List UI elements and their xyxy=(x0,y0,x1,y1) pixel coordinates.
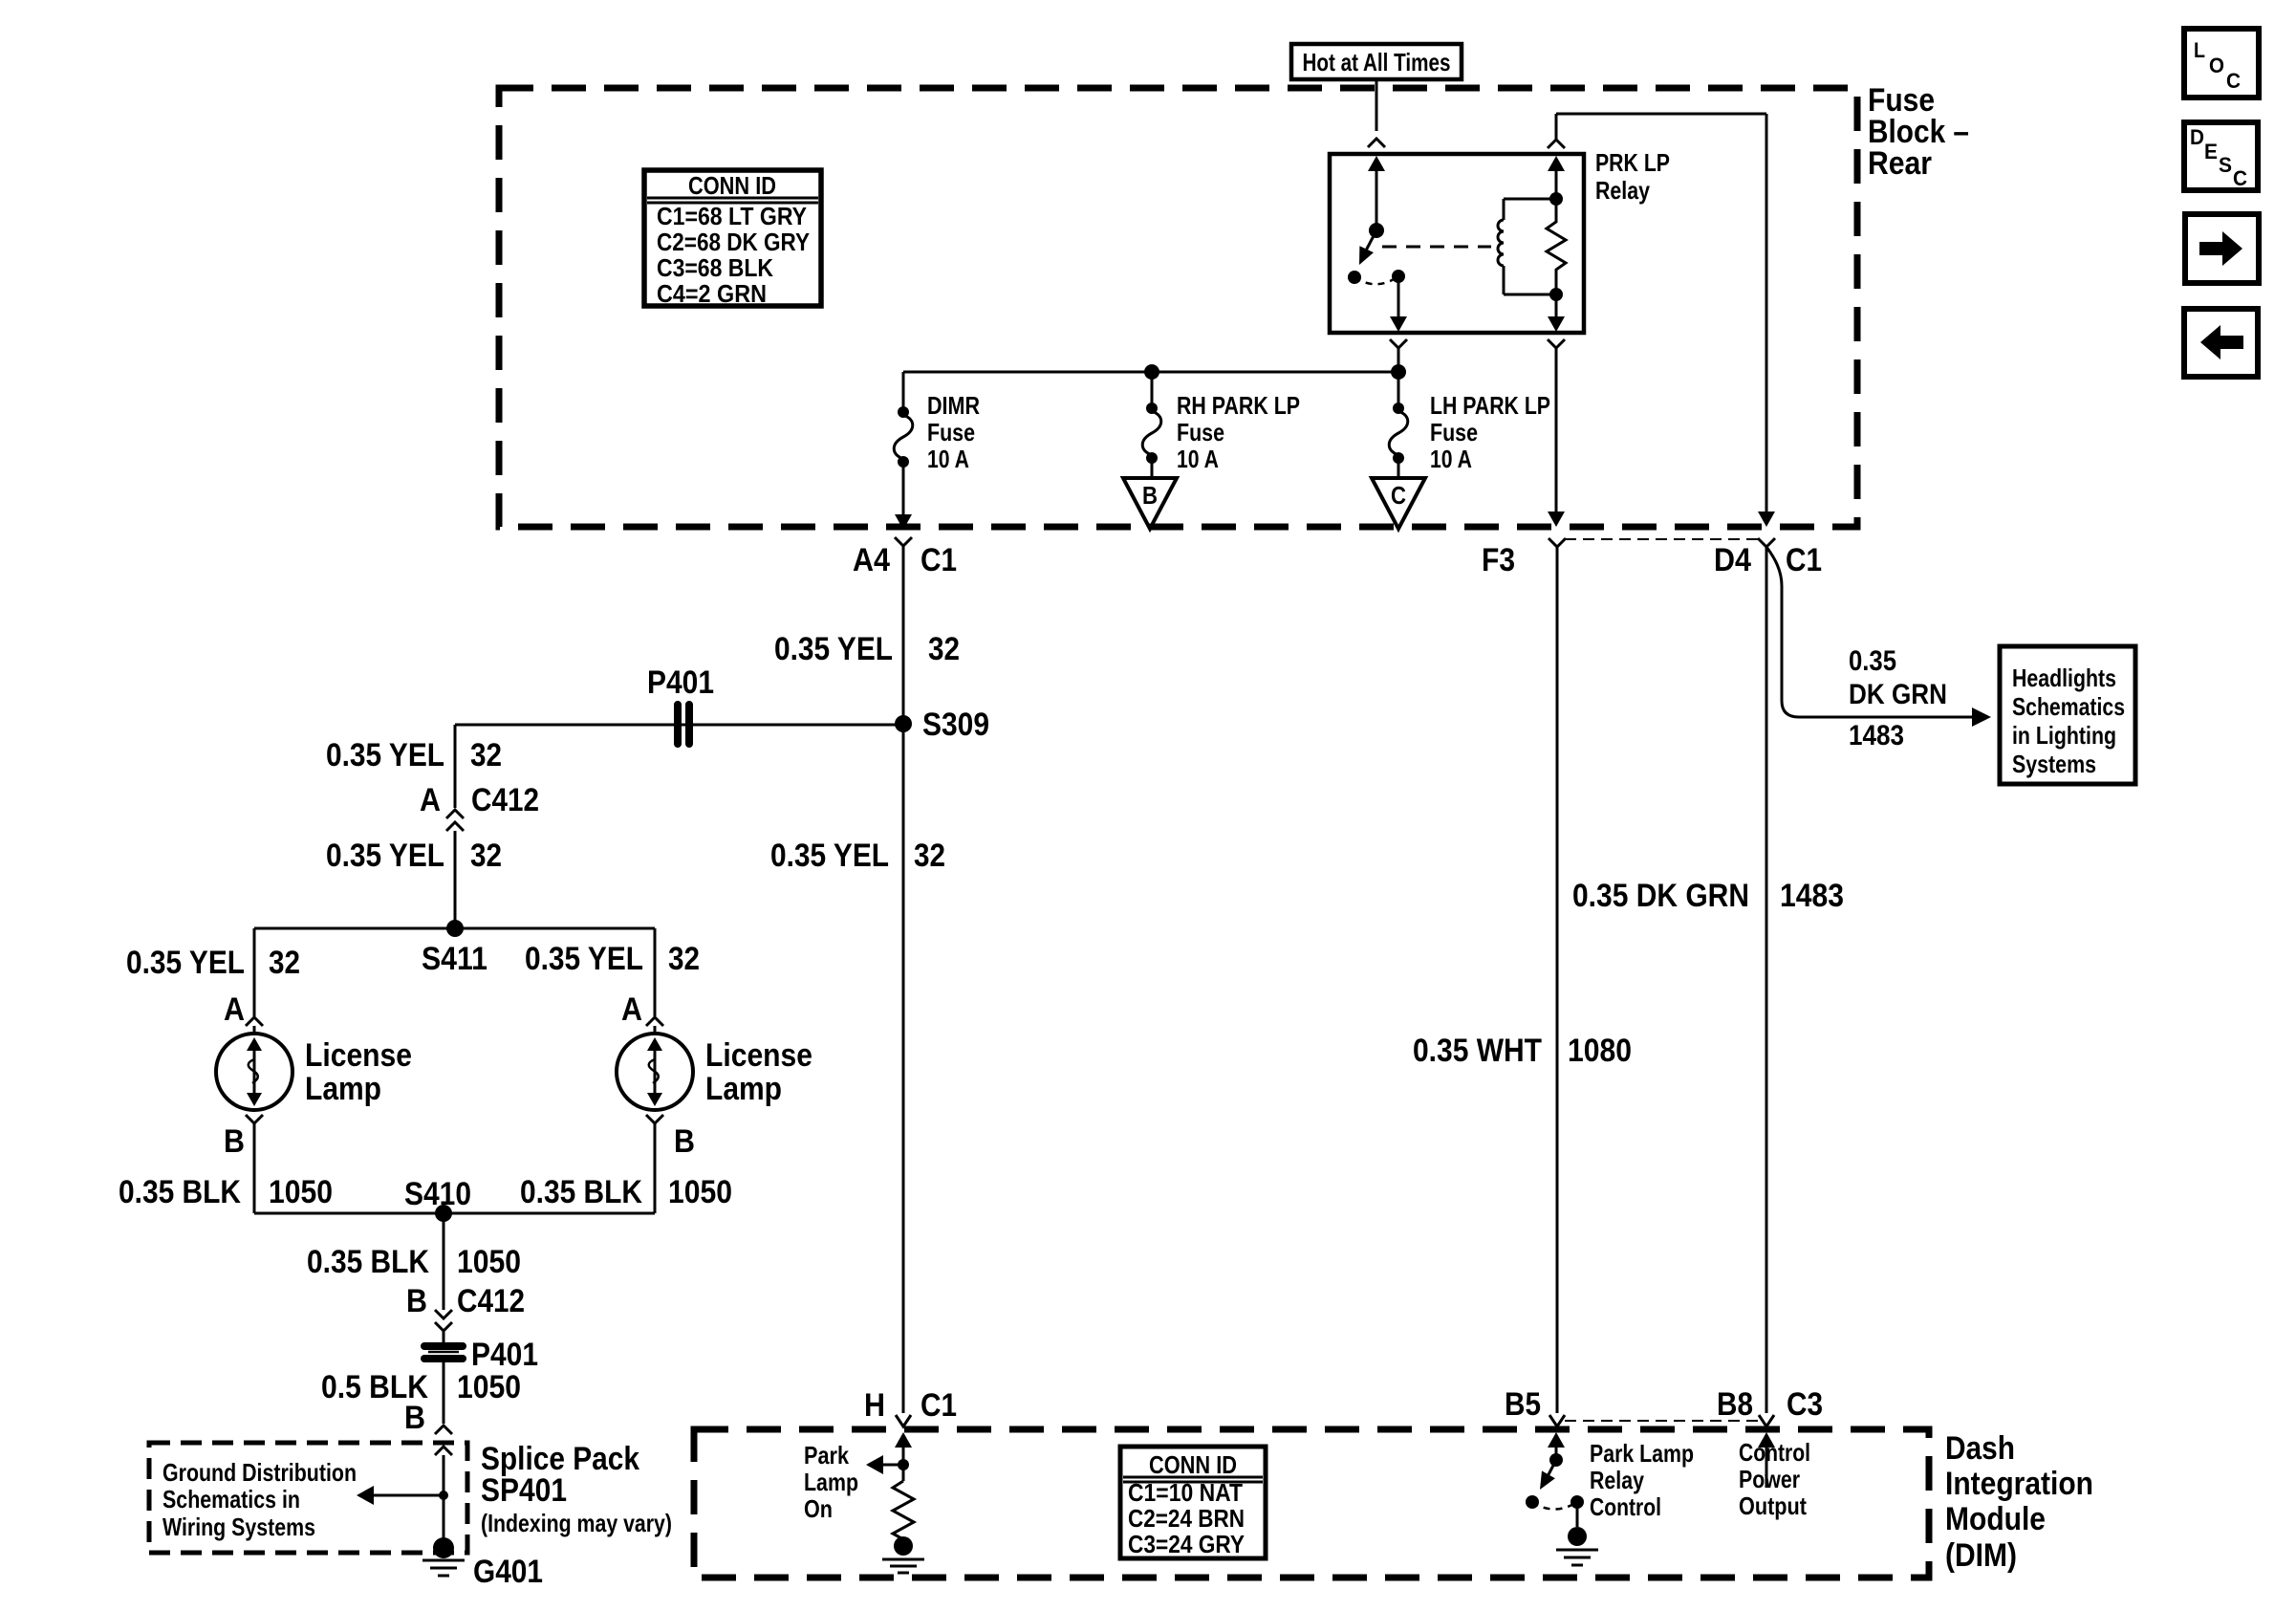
svg-text:Lamp: Lamp xyxy=(305,1071,381,1107)
svg-text:PRK LP: PRK LP xyxy=(1595,148,1670,177)
svg-text:32: 32 xyxy=(928,631,960,667)
svg-text:32: 32 xyxy=(668,941,700,977)
svg-text:1050: 1050 xyxy=(668,1174,732,1210)
svg-text:Schematics in: Schematics in xyxy=(162,1485,300,1513)
svg-text:B: B xyxy=(406,1283,427,1319)
svg-text:0.35 YEL: 0.35 YEL xyxy=(525,941,643,977)
svg-text:S411: S411 xyxy=(422,941,487,977)
svg-text:Output: Output xyxy=(1739,1491,1807,1520)
svg-text:B5: B5 xyxy=(1505,1386,1541,1423)
svg-text:Module: Module xyxy=(1945,1501,2046,1537)
svg-text:0.35 DK GRN: 0.35 DK GRN xyxy=(1572,878,1749,914)
svg-text:C: C xyxy=(2233,166,2247,190)
svg-text:10 A: 10 A xyxy=(1177,445,1219,473)
svg-text:B: B xyxy=(674,1123,695,1160)
svg-text:A4: A4 xyxy=(853,542,890,578)
svg-text:Systems: Systems xyxy=(2012,750,2096,778)
svg-text:1483: 1483 xyxy=(1780,878,1844,914)
svg-text:0.35 YEL: 0.35 YEL xyxy=(326,838,444,874)
svg-text:D4: D4 xyxy=(1714,542,1751,578)
svg-text:Fuse: Fuse xyxy=(1177,418,1224,446)
svg-text:RH PARK LP: RH PARK LP xyxy=(1177,391,1300,420)
svg-text:Power: Power xyxy=(1739,1465,1800,1493)
svg-text:1050: 1050 xyxy=(457,1369,521,1405)
svg-text:Park Lamp: Park Lamp xyxy=(1590,1439,1694,1468)
svg-text:C: C xyxy=(2226,69,2241,93)
svg-text:F3: F3 xyxy=(1482,542,1515,578)
svg-text:0.35 BLK: 0.35 BLK xyxy=(520,1174,642,1210)
svg-text:32: 32 xyxy=(914,838,945,874)
svg-text:S309: S309 xyxy=(922,707,989,743)
svg-text:C3: C3 xyxy=(1787,1386,1823,1423)
svg-text:Headlights: Headlights xyxy=(2012,664,2116,692)
svg-text:C2=24 BRN: C2=24 BRN xyxy=(1128,1504,1245,1533)
svg-text:C: C xyxy=(1391,481,1406,510)
svg-text:Dash: Dash xyxy=(1945,1430,2015,1467)
svg-text:CONN ID: CONN ID xyxy=(688,171,776,200)
svg-text:C1: C1 xyxy=(921,1387,957,1424)
svg-text:C1: C1 xyxy=(921,542,957,578)
svg-text:Lamp: Lamp xyxy=(804,1468,858,1496)
svg-text:S410: S410 xyxy=(404,1176,471,1212)
svg-text:Relay: Relay xyxy=(1595,176,1650,205)
svg-text:0.35 YEL: 0.35 YEL xyxy=(126,945,245,981)
svg-text:A: A xyxy=(621,991,642,1028)
svg-text:Fuse: Fuse xyxy=(927,418,975,446)
svg-text:Park: Park xyxy=(804,1441,849,1469)
svg-text:B8: B8 xyxy=(1717,1386,1753,1423)
svg-text:C412: C412 xyxy=(457,1283,525,1319)
svg-text:Schematics: Schematics xyxy=(2012,692,2125,721)
svg-text:Hot at All Times: Hot at All Times xyxy=(1303,48,1451,76)
svg-text:in Lighting: in Lighting xyxy=(2012,721,2116,750)
svg-text:Rear: Rear xyxy=(1868,145,1932,182)
svg-text:Lamp: Lamp xyxy=(705,1071,782,1107)
svg-text:(Indexing may vary): (Indexing may vary) xyxy=(481,1509,672,1537)
svg-text:1483: 1483 xyxy=(1849,720,1904,751)
svg-text:Wiring Systems: Wiring Systems xyxy=(162,1513,315,1541)
svg-text:D: D xyxy=(2190,125,2204,149)
svg-text:A: A xyxy=(224,991,245,1028)
svg-text:A: A xyxy=(420,782,441,818)
svg-text:Control: Control xyxy=(1590,1492,1661,1521)
svg-text:0.35: 0.35 xyxy=(1849,645,1896,677)
svg-text:1050: 1050 xyxy=(269,1174,333,1210)
svg-text:O: O xyxy=(2209,54,2224,77)
svg-text:C3=68 BLK: C3=68 BLK xyxy=(657,253,773,282)
svg-text:C2=68 DK GRY: C2=68 DK GRY xyxy=(657,228,810,256)
svg-text:C412: C412 xyxy=(471,782,539,818)
svg-text:0.35 YEL: 0.35 YEL xyxy=(326,737,444,773)
svg-text:E: E xyxy=(2204,140,2218,163)
svg-text:S: S xyxy=(2219,153,2232,177)
svg-text:0.35 YEL: 0.35 YEL xyxy=(774,631,893,667)
svg-text:0.35 BLK: 0.35 BLK xyxy=(119,1174,241,1210)
svg-text:B: B xyxy=(224,1123,245,1160)
svg-text:C1=10 NAT: C1=10 NAT xyxy=(1128,1478,1243,1507)
svg-text:P401: P401 xyxy=(647,664,714,701)
svg-text:10 A: 10 A xyxy=(927,445,969,473)
svg-text:1050: 1050 xyxy=(457,1244,521,1280)
svg-text:Ground Distribution: Ground Distribution xyxy=(162,1458,357,1487)
svg-text:Relay: Relay xyxy=(1590,1466,1644,1494)
svg-text:32: 32 xyxy=(269,945,300,981)
svg-text:10 A: 10 A xyxy=(1430,445,1472,473)
svg-text:P401: P401 xyxy=(471,1337,538,1373)
svg-text:(DIM): (DIM) xyxy=(1945,1537,2017,1574)
svg-text:0.35 WHT: 0.35 WHT xyxy=(1413,1033,1542,1069)
svg-text:C1=68 LT GRY: C1=68 LT GRY xyxy=(657,202,807,230)
svg-text:Control: Control xyxy=(1739,1438,1810,1467)
svg-text:G401: G401 xyxy=(473,1554,543,1590)
svg-text:LH PARK LP: LH PARK LP xyxy=(1430,391,1550,420)
svg-text:SP401: SP401 xyxy=(481,1472,567,1509)
svg-text:CONN ID: CONN ID xyxy=(1149,1450,1237,1479)
svg-text:0.35 YEL: 0.35 YEL xyxy=(770,838,889,874)
svg-text:B: B xyxy=(404,1400,425,1436)
svg-text:32: 32 xyxy=(470,838,502,874)
svg-text:DK GRN: DK GRN xyxy=(1849,679,1947,710)
svg-text:H: H xyxy=(864,1387,885,1424)
svg-text:License: License xyxy=(705,1037,812,1074)
svg-text:On: On xyxy=(804,1494,833,1523)
svg-text:C1: C1 xyxy=(1786,542,1822,578)
svg-text:Fuse: Fuse xyxy=(1430,418,1478,446)
svg-text:License: License xyxy=(305,1037,412,1074)
svg-text:B: B xyxy=(1142,481,1158,510)
svg-text:32: 32 xyxy=(470,737,502,773)
svg-text:0.35 BLK: 0.35 BLK xyxy=(307,1244,429,1280)
svg-text:L: L xyxy=(2194,38,2205,62)
svg-text:DIMR: DIMR xyxy=(927,391,980,420)
svg-text:Integration: Integration xyxy=(1945,1466,2093,1502)
svg-text:1080: 1080 xyxy=(1568,1033,1632,1069)
svg-text:C4=2 GRN: C4=2 GRN xyxy=(657,279,767,308)
svg-text:C3=24 GRY: C3=24 GRY xyxy=(1128,1530,1245,1558)
